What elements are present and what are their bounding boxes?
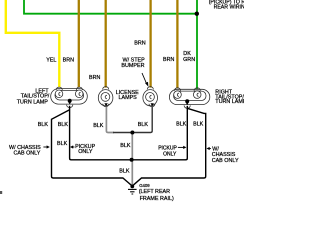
svg-text:GRN: GRN: [183, 57, 195, 63]
svg-text:BRN: BRN: [63, 57, 74, 63]
svg-text:TURN LAMP: TURN LAMP: [17, 99, 49, 105]
svg-text:BLK: BLK: [193, 122, 204, 128]
svg-text:ONLY: ONLY: [163, 151, 177, 157]
svg-text:BLK: BLK: [58, 122, 69, 128]
svg-text:BLK: BLK: [119, 168, 130, 174]
svg-text:YEL: YEL: [46, 57, 56, 63]
svg-text:BLK: BLK: [120, 143, 131, 149]
svg-text:BRN: BRN: [89, 75, 100, 81]
svg-text:TURN LAMP: TURN LAMP: [215, 99, 244, 105]
svg-text:BLK: BLK: [176, 122, 187, 128]
svg-text:BRN: BRN: [163, 57, 174, 63]
svg-text:REAR WIRING: REAR WIRING: [214, 5, 244, 11]
svg-text:BLK: BLK: [57, 141, 68, 147]
svg-text:CAB ONLY: CAB ONLY: [212, 158, 239, 164]
svg-text:BUMPER: BUMPER: [121, 63, 144, 69]
svg-text:G409: G409: [139, 183, 150, 188]
svg-text:BLK: BLK: [93, 123, 104, 129]
svg-text:BRN: BRN: [134, 40, 145, 46]
svg-text:(LEFT REAR: (LEFT REAR: [139, 189, 170, 195]
svg-text:BLK: BLK: [138, 122, 149, 128]
svg-text:FRAME RAIL): FRAME RAIL): [140, 196, 174, 202]
svg-text:LAMPS: LAMPS: [119, 95, 138, 101]
svg-text:CAB ONLY: CAB ONLY: [14, 151, 41, 157]
svg-text:ONLY: ONLY: [78, 149, 93, 155]
svg-text:BLK: BLK: [38, 122, 49, 128]
